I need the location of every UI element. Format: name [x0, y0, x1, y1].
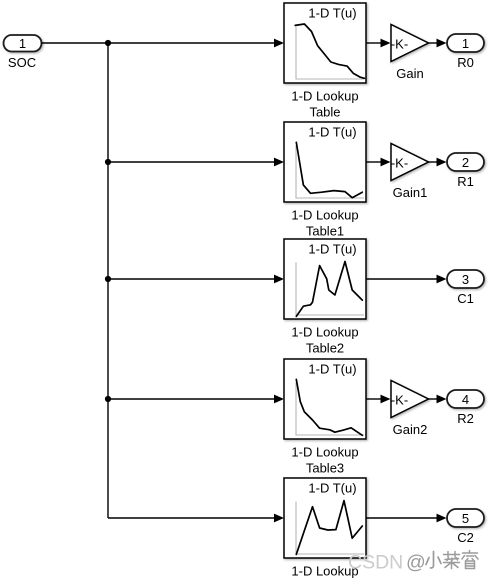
junction node row4: [105, 396, 111, 402]
svg-text:C1: C1: [457, 291, 474, 306]
svg-text:C2: C2: [457, 530, 474, 545]
junction node row3: [105, 276, 111, 282]
svg-text:1-D T(u): 1-D T(u): [308, 5, 356, 20]
svg-text:SOC: SOC: [8, 55, 36, 70]
svg-text:CSDN: CSDN: [348, 552, 403, 574]
svg-text:1-D T(u): 1-D T(u): [308, 124, 356, 139]
svg-text:1-D Lookup: 1-D Lookup: [291, 208, 358, 223]
gain block Gain1 (-K-): [391, 144, 429, 181]
lookup table block 3 (1-D Lookup Table2): [284, 239, 366, 319]
wire lookup3 to outport 3: [366, 275, 447, 284]
wire branch to lookup4: [108, 395, 284, 404]
svg-text:1: 1: [19, 36, 26, 51]
junction node row1: [105, 40, 111, 46]
svg-text:-K-: -K-: [391, 36, 408, 51]
gain block Gain2 (-K-): [391, 381, 429, 418]
gain block Gain (-K-): [391, 25, 429, 62]
svg-text:R2: R2: [457, 411, 474, 426]
svg-text:1-D Lookup: 1-D Lookup: [291, 89, 358, 104]
wire lookup2 to gain: [366, 158, 391, 167]
svg-text:4: 4: [462, 392, 469, 407]
outport 4 (R2): [447, 390, 484, 408]
svg-text:3: 3: [462, 272, 469, 287]
svg-text:Table: Table: [309, 105, 340, 120]
wire branch to lookup3: [108, 275, 284, 284]
wire lookup4 to gain: [366, 395, 391, 404]
svg-text:1-D T(u): 1-D T(u): [308, 480, 356, 495]
outport 5 (C2): [447, 509, 484, 527]
inport 1 SOC: [4, 35, 42, 52]
svg-text:Gain: Gain: [396, 66, 423, 81]
wire lookup5 to outport 5: [366, 514, 447, 523]
outport 1 (R0): [447, 34, 484, 52]
lookup table block 5 (1-D Lookup Table4): [284, 478, 366, 558]
svg-text:1-D T(u): 1-D T(u): [308, 241, 356, 256]
lookup table block 1 (1-D Lookup Table): [284, 3, 366, 83]
svg-text:Gain2: Gain2: [393, 422, 428, 437]
wire gain to outport 1: [429, 39, 447, 48]
svg-text:Table3: Table3: [306, 461, 344, 476]
wire gain to outport 4: [429, 395, 447, 404]
svg-text:1-D Lookup: 1-D Lookup: [291, 325, 358, 340]
svg-text:-K-: -K-: [391, 155, 408, 170]
watermark glyph xiao: [426, 552, 441, 569]
lookup table block 4 (1-D Lookup Table3): [284, 359, 366, 439]
svg-text:5: 5: [462, 511, 469, 526]
outport 2 (R1): [447, 153, 484, 171]
wire branch to lookup2: [108, 158, 284, 167]
wire gain to outport 2: [429, 158, 447, 167]
svg-text:2: 2: [462, 155, 469, 170]
svg-text:R0: R0: [457, 55, 474, 70]
wire trunk vertical: [107, 43, 109, 518]
svg-text:1: 1: [462, 36, 469, 51]
svg-text:@: @: [406, 552, 426, 574]
wire SOC to lookup1: [42, 39, 285, 48]
svg-text:-K-: -K-: [391, 392, 408, 407]
watermark glyph cai: [444, 552, 460, 569]
svg-text:1-D Lookup: 1-D Lookup: [291, 445, 358, 460]
svg-text:R1: R1: [457, 174, 474, 189]
svg-text:Table1: Table1: [306, 224, 344, 239]
svg-text:Table2: Table2: [306, 341, 344, 356]
junction node row2: [105, 159, 111, 165]
lookup table block 2 (1-D Lookup Table1): [284, 122, 366, 202]
wire branch to lookup5: [108, 514, 284, 523]
wire lookup1 to gain: [366, 39, 391, 48]
outport 3 (C1): [447, 270, 484, 288]
svg-text:1-D T(u): 1-D T(u): [308, 361, 356, 376]
svg-text:Gain1: Gain1: [393, 185, 428, 200]
watermark glyph rui: [462, 551, 478, 569]
